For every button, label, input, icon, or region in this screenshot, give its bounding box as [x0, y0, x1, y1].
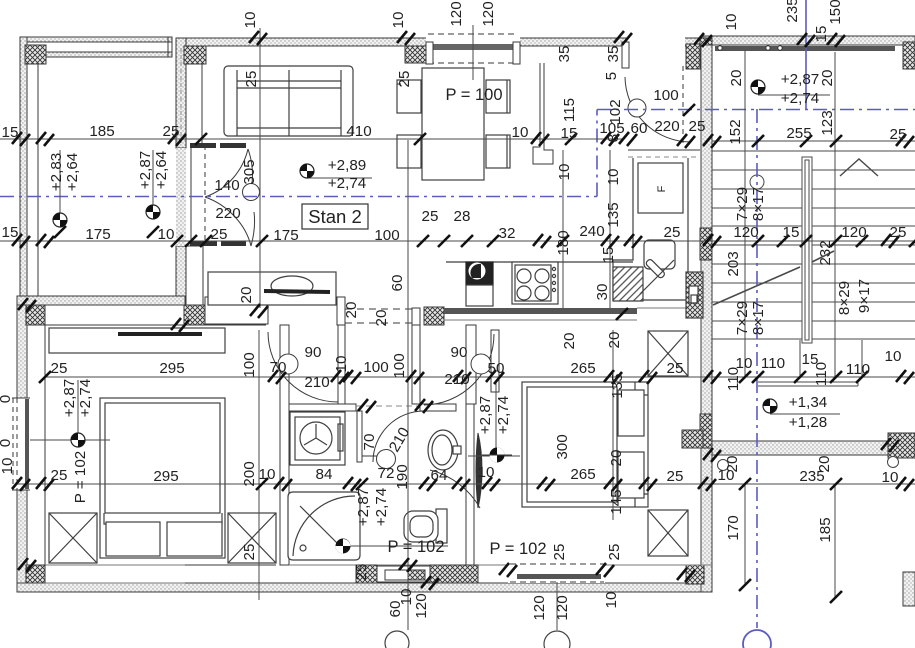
wall bedroom1 right / bathroom left — [280, 325, 289, 565]
STAIR_START — [176, 66, 915, 508]
ext line x557 — [556, 582, 558, 630]
ext line x473 — [472, 25, 474, 80]
svg-text:102: 102 — [607, 99, 624, 124]
shower — [288, 492, 360, 560]
svg-text:110: 110 — [761, 355, 785, 372]
svg-text:235: 235 — [784, 0, 801, 23]
washing machine — [290, 412, 345, 465]
svg-text:+2,74: +2,74 — [328, 175, 366, 192]
svg-text:20: 20 — [606, 332, 623, 349]
axis horizontal A — [0, 196, 597, 198]
svg-text:185: 185 — [89, 123, 114, 140]
nightstand1 right (X) — [228, 513, 276, 563]
svg-text:+2,64: +2,64 — [153, 151, 170, 189]
svg-text:200: 200 — [241, 461, 258, 486]
dining table — [422, 68, 484, 180]
dim line row1 y139 — [0, 138, 622, 140]
svg-text:295: 295 — [159, 360, 184, 377]
svg-text:120: 120 — [554, 595, 571, 620]
svg-text:410: 410 — [346, 123, 371, 140]
corner circle left — [718, 460, 729, 471]
axis vertical top right — [805, 0, 807, 109]
svg-text:Stan 2: Stan 2 — [308, 206, 362, 227]
chair left 1 — [397, 80, 421, 113]
svg-text:110: 110 — [813, 362, 830, 386]
wall bedroom1 inner line — [44, 325, 46, 565]
stove — [512, 262, 558, 304]
svg-text:10: 10 — [259, 466, 276, 483]
svg-text:60: 60 — [389, 275, 406, 292]
ticks bottom wall — [358, 308, 899, 603]
svg-text:123: 123 — [819, 110, 836, 135]
svg-text:P = 102: P = 102 — [72, 451, 89, 504]
svg-text:25: 25 — [664, 224, 681, 241]
svg-text:232: 232 — [817, 240, 834, 265]
leader elev topright — [758, 94, 830, 96]
svg-text:152: 152 — [727, 119, 744, 144]
column bottom right — [686, 565, 704, 584]
svg-text:110: 110 — [725, 367, 742, 391]
svg-text:300: 300 — [554, 434, 571, 459]
ext line x563 kitchen — [562, 150, 564, 308]
wall stair hall top — [703, 36, 915, 51]
column hall (dark) — [424, 307, 444, 325]
svg-text:90: 90 — [305, 344, 322, 361]
kitchen sink unit — [466, 262, 493, 306]
svg-text:20: 20 — [608, 450, 625, 467]
leader elev stairs134 — [770, 413, 840, 415]
stair rail — [802, 157, 812, 343]
chair right 2 — [486, 135, 510, 168]
bedroom1 interior bottom edge — [27, 564, 276, 566]
ext line x835 — [834, 52, 836, 597]
svg-text:10: 10 — [478, 464, 495, 481]
svg-text:100: 100 — [391, 353, 408, 378]
bed 1 — [100, 398, 225, 558]
window top (120+120) — [426, 32, 520, 64]
column stair top-left — [700, 38, 712, 69]
svg-text:90: 90 — [451, 344, 468, 361]
svg-text:10: 10 — [605, 169, 622, 186]
svg-text:100: 100 — [374, 227, 399, 244]
door entrance arc — [625, 66, 691, 145]
svg-text:10: 10 — [390, 12, 407, 29]
svg-text:10: 10 — [603, 592, 620, 609]
column right wall b — [700, 414, 712, 448]
ticks row4 — [12, 477, 914, 491]
svg-text:+2,89: +2,89 — [328, 157, 366, 174]
svg-text:25: 25 — [890, 126, 907, 143]
svg-text:8: 8 — [605, 134, 622, 142]
svg-text:60: 60 — [631, 120, 648, 137]
svg-text:25: 25 — [667, 468, 684, 485]
nightstand2 bottom (X) — [648, 510, 688, 556]
svg-text:+2,87: +2,87 — [477, 396, 494, 434]
svg-text:100: 100 — [363, 359, 388, 376]
svg-text:25: 25 — [51, 467, 68, 484]
elevation sym left2 — [146, 205, 160, 219]
leader elev left1 — [59, 150, 61, 220]
corner circle right — [888, 457, 899, 468]
ticks row3 — [39, 304, 914, 384]
wall bedroom2 left upper posts — [466, 325, 476, 404]
svg-text:+1,28: +1,28 — [789, 414, 827, 431]
svg-text:10: 10 — [512, 124, 529, 141]
svg-text:210: 210 — [304, 374, 329, 391]
svg-text:25: 25 — [551, 544, 568, 561]
terrace door bottom-left gap — [45, 565, 185, 583]
ext line x610 kitchen — [609, 150, 611, 308]
svg-text:F: F — [656, 185, 668, 192]
svg-text:305: 305 — [241, 159, 258, 184]
svg-text:150: 150 — [827, 0, 844, 25]
wall dashed segment (100 opening) — [345, 309, 412, 323]
svg-text:10: 10 — [882, 469, 899, 486]
svg-text:+2,64: +2,64 — [64, 153, 81, 191]
door main double-swing corridor — [176, 143, 260, 246]
svg-text:120: 120 — [841, 224, 866, 241]
wall fridge top — [628, 150, 700, 157]
svg-text:20: 20 — [819, 70, 836, 87]
wall kitchen south — [444, 308, 686, 320]
svg-text:20: 20 — [816, 456, 833, 473]
wall left exterior — [17, 296, 27, 592]
wall bathroom top — [289, 404, 456, 411]
svg-text:10: 10 — [723, 14, 740, 31]
ext line x613 bedroom2 — [612, 330, 614, 520]
entrance opening gap — [628, 36, 685, 47]
ext line x408 — [407, 140, 409, 630]
ext line x800 x862 landing — [800, 340, 862, 377]
svg-text:203: 203 — [725, 251, 742, 276]
dim line row3 y377 — [45, 376, 915, 378]
bedroom1 interior top edge — [45, 324, 266, 326]
ext line x259 — [258, 330, 260, 600]
svg-text:170: 170 — [725, 515, 742, 540]
svg-text:28: 28 — [454, 208, 471, 225]
wardrobe bedroom1 — [49, 328, 225, 353]
svg-text:15: 15 — [2, 124, 19, 141]
svg-text:0: 0 — [0, 439, 14, 447]
door leaf bedroom2 (dark) — [430, 433, 482, 508]
svg-text:100: 100 — [241, 352, 258, 377]
axis bubble 1 — [385, 631, 409, 648]
svg-text:0: 0 — [0, 395, 14, 403]
svg-text:10: 10 — [242, 12, 259, 29]
svg-text:120: 120 — [480, 1, 497, 26]
ticks top wall — [249, 31, 845, 116]
ext line x745 — [744, 50, 746, 585]
elevation sym living — [300, 164, 314, 178]
sink bathroom — [428, 430, 461, 470]
svg-text:+2,83: +2,83 — [48, 153, 65, 191]
svg-text:P = 100: P = 100 — [445, 86, 502, 104]
living west inner edge — [201, 46, 203, 148]
wall south interior band bath — [289, 565, 712, 583]
svg-text:7×29: 7×29 — [734, 301, 751, 335]
nightstand1 left (X) — [49, 513, 97, 563]
svg-text:+2,74: +2,74 — [495, 396, 512, 434]
svg-text:20: 20 — [561, 333, 578, 350]
wall bottom exterior — [17, 583, 712, 592]
wall corridor/bedroom1 horizontal — [17, 296, 185, 305]
svg-text:+2,87: +2,87 — [61, 379, 78, 417]
svg-text:P = 102: P = 102 — [387, 538, 444, 556]
svg-text:20: 20 — [343, 302, 360, 319]
door bathroom arc — [373, 411, 424, 469]
svg-text:25: 25 — [243, 71, 260, 88]
svg-text:25: 25 — [689, 118, 706, 135]
svg-text:120: 120 — [448, 1, 465, 26]
kitchen corner sink — [613, 240, 675, 301]
wall bathroom right / bedroom2 left — [466, 404, 474, 565]
svg-text:15: 15 — [783, 224, 800, 241]
svg-text:25: 25 — [163, 123, 180, 140]
ticks row2 — [12, 234, 915, 248]
partition WC 70 — [357, 411, 362, 462]
svg-text:110: 110 — [846, 361, 870, 378]
wall terrace parapet top — [20, 37, 172, 57]
svg-text:180: 180 — [555, 230, 572, 255]
svg-text:70: 70 — [361, 434, 378, 451]
elevation sym bed1 — [71, 433, 85, 447]
leader elev living — [307, 177, 372, 179]
svg-text:220: 220 — [654, 118, 679, 135]
sofa — [224, 66, 353, 136]
axis bubble 2 — [544, 631, 570, 648]
svg-text:8×29: 8×29 — [836, 281, 853, 315]
elevation sym bed2 — [482, 448, 512, 463]
svg-text:15: 15 — [813, 26, 830, 43]
svg-text:20: 20 — [373, 310, 390, 327]
svg-text:135: 135 — [609, 373, 626, 398]
svg-text:265: 265 — [570, 360, 595, 377]
axis horizontal B — [597, 109, 915, 111]
svg-text:25: 25 — [241, 544, 258, 561]
svg-text:+2,87: +2,87 — [781, 71, 819, 88]
svg-text:210: 210 — [444, 371, 469, 388]
svg-text:120: 120 — [413, 593, 430, 618]
svg-text:240: 240 — [579, 223, 604, 240]
column right wall a — [700, 228, 712, 260]
wall right separation (apartment/stair) — [701, 45, 712, 592]
wall post hall right lower — [412, 325, 420, 404]
stair arrow up — [840, 159, 878, 176]
svg-text:25: 25 — [606, 544, 623, 561]
svg-text:64: 64 — [431, 467, 448, 484]
svg-text:9×17: 9×17 — [856, 279, 873, 313]
wall post hall left — [337, 297, 345, 325]
svg-text:+2,74: +2,74 — [373, 488, 390, 526]
dim line row2 y241 — [0, 240, 915, 242]
leader elev bed1 — [30, 380, 110, 440]
column bed1 ne — [184, 305, 205, 325]
pier bedroom2 right — [682, 430, 703, 448]
svg-text:220: 220 — [215, 205, 240, 222]
svg-text:120: 120 — [531, 595, 548, 620]
nightstand2 top (X) — [648, 331, 688, 376]
wall corridor/living vertical — [176, 38, 186, 148]
svg-text:10: 10 — [333, 356, 350, 373]
wall corridor/living below door — [176, 246, 203, 305]
svg-text:10: 10 — [0, 458, 16, 475]
leader elev left2 — [152, 150, 154, 212]
svg-text:10: 10 — [158, 226, 175, 243]
kitchen dark block notch — [686, 272, 703, 318]
wall post hall right — [412, 308, 420, 325]
dim line row1 right y141 — [712, 140, 915, 142]
svg-text:295: 295 — [153, 468, 178, 485]
wall step right of table — [533, 63, 553, 164]
column living top-right — [405, 46, 426, 63]
svg-text:32: 32 — [499, 225, 516, 242]
svg-text:8×17: 8×17 — [750, 187, 767, 221]
svg-text:175: 175 — [85, 226, 110, 243]
svg-text:100: 100 — [653, 87, 678, 104]
window left wall — [12, 398, 30, 490]
svg-text:25: 25 — [396, 71, 413, 88]
column living top-left — [184, 46, 206, 64]
door bedroom1 arc — [268, 332, 338, 402]
svg-text:+2,74: +2,74 — [781, 90, 819, 107]
wall top exterior living — [176, 38, 703, 46]
svg-text:10: 10 — [556, 164, 573, 181]
ticks row1 — [12, 132, 914, 148]
svg-text:70: 70 — [270, 359, 287, 376]
column top-left — [25, 45, 46, 64]
wall post hall left lower — [338, 325, 345, 404]
wall living/bed1 segment — [205, 297, 268, 324]
elevation sym stairs — [763, 399, 777, 413]
kitchen counter edge — [446, 261, 633, 263]
svg-text:185: 185 — [817, 517, 834, 542]
label stan2 — [302, 204, 368, 229]
svg-text:15: 15 — [561, 125, 578, 142]
svg-text:+2,87: +2,87 — [355, 488, 372, 526]
leader elev bed2 — [468, 380, 520, 456]
column bed1 sw — [26, 565, 45, 583]
elevation sym bath dark — [336, 539, 351, 554]
svg-text:35: 35 — [605, 46, 622, 63]
svg-text:+2,87: +2,87 — [137, 151, 154, 189]
svg-text:20: 20 — [238, 287, 255, 304]
ext line x260 — [259, 28, 261, 308]
svg-text:10: 10 — [885, 348, 902, 365]
bed 2 — [522, 382, 648, 507]
svg-text:72: 72 — [378, 465, 395, 482]
svg-text:145: 145 — [608, 489, 625, 514]
axis vertical jog — [596, 110, 598, 197]
svg-text:+1,34: +1,34 — [789, 394, 827, 411]
chair left 2 — [397, 135, 421, 168]
svg-text:84: 84 — [316, 466, 333, 483]
axis vertical stairs — [756, 109, 758, 628]
svg-text:15: 15 — [2, 224, 19, 241]
svg-text:25: 25 — [422, 208, 439, 225]
ticks left column — [18, 226, 159, 572]
svg-text:7×29: 7×29 — [734, 187, 751, 221]
leader elev bath — [343, 545, 448, 547]
kitchen right counter outline — [613, 158, 688, 300]
wall post bedroom2 door — [491, 330, 499, 392]
window bedroom2 south — [508, 563, 605, 583]
svg-text:20: 20 — [724, 456, 741, 473]
svg-text:25: 25 — [51, 360, 68, 377]
svg-text:115: 115 — [561, 98, 578, 122]
wall terrace parapet left — [20, 37, 27, 296]
stair walk line — [713, 175, 834, 305]
svg-text:25: 25 — [890, 224, 907, 241]
stair landing edge — [758, 382, 858, 386]
column stair top-right — [903, 42, 915, 69]
fridge F — [638, 163, 683, 213]
door bedroom2 arc — [424, 334, 494, 405]
svg-text:35: 35 — [556, 46, 573, 63]
wall stair hall bottom — [712, 433, 915, 458]
svg-text:20: 20 — [728, 70, 745, 87]
svg-text:120: 120 — [733, 224, 758, 241]
svg-text:30: 30 — [594, 284, 611, 301]
chair right 1 — [486, 80, 510, 113]
stair steps — [712, 151, 915, 339]
svg-text:15: 15 — [600, 247, 617, 264]
column top wall mid (left of entrance) — [686, 44, 704, 69]
svg-text:175: 175 — [273, 227, 298, 244]
FURN_START — [49, 66, 703, 563]
dim line row4 y484 — [17, 483, 915, 485]
axis bubble blue — [743, 630, 771, 648]
svg-text:P = 102: P = 102 — [489, 540, 546, 558]
column bed1 nw — [26, 305, 45, 325]
svg-text:25: 25 — [353, 564, 370, 581]
corridor inner edge — [27, 64, 38, 296]
svg-text:265: 265 — [570, 466, 595, 483]
elevation sym topright — [751, 80, 765, 94]
TEXTS_START — [2, 71, 907, 558]
svg-text:+2,74: +2,74 — [77, 379, 94, 417]
elevation sym left1 — [53, 213, 67, 227]
svg-text:25: 25 — [211, 226, 228, 243]
svg-text:140: 140 — [214, 177, 239, 194]
tv cabinet — [208, 272, 336, 305]
toilet bathroom — [404, 509, 447, 543]
svg-text:25: 25 — [667, 360, 684, 377]
svg-text:5: 5 — [603, 72, 620, 80]
partition shelf — [362, 455, 379, 457]
wall sliver bottom right — [903, 572, 915, 606]
svg-text:190: 190 — [394, 464, 411, 489]
door frame entrance — [622, 42, 629, 68]
svg-text:50: 50 — [488, 360, 505, 377]
svg-text:8×17: 8×17 — [750, 301, 767, 335]
svg-text:255: 255 — [786, 125, 811, 142]
svg-text:135: 135 — [605, 202, 622, 227]
